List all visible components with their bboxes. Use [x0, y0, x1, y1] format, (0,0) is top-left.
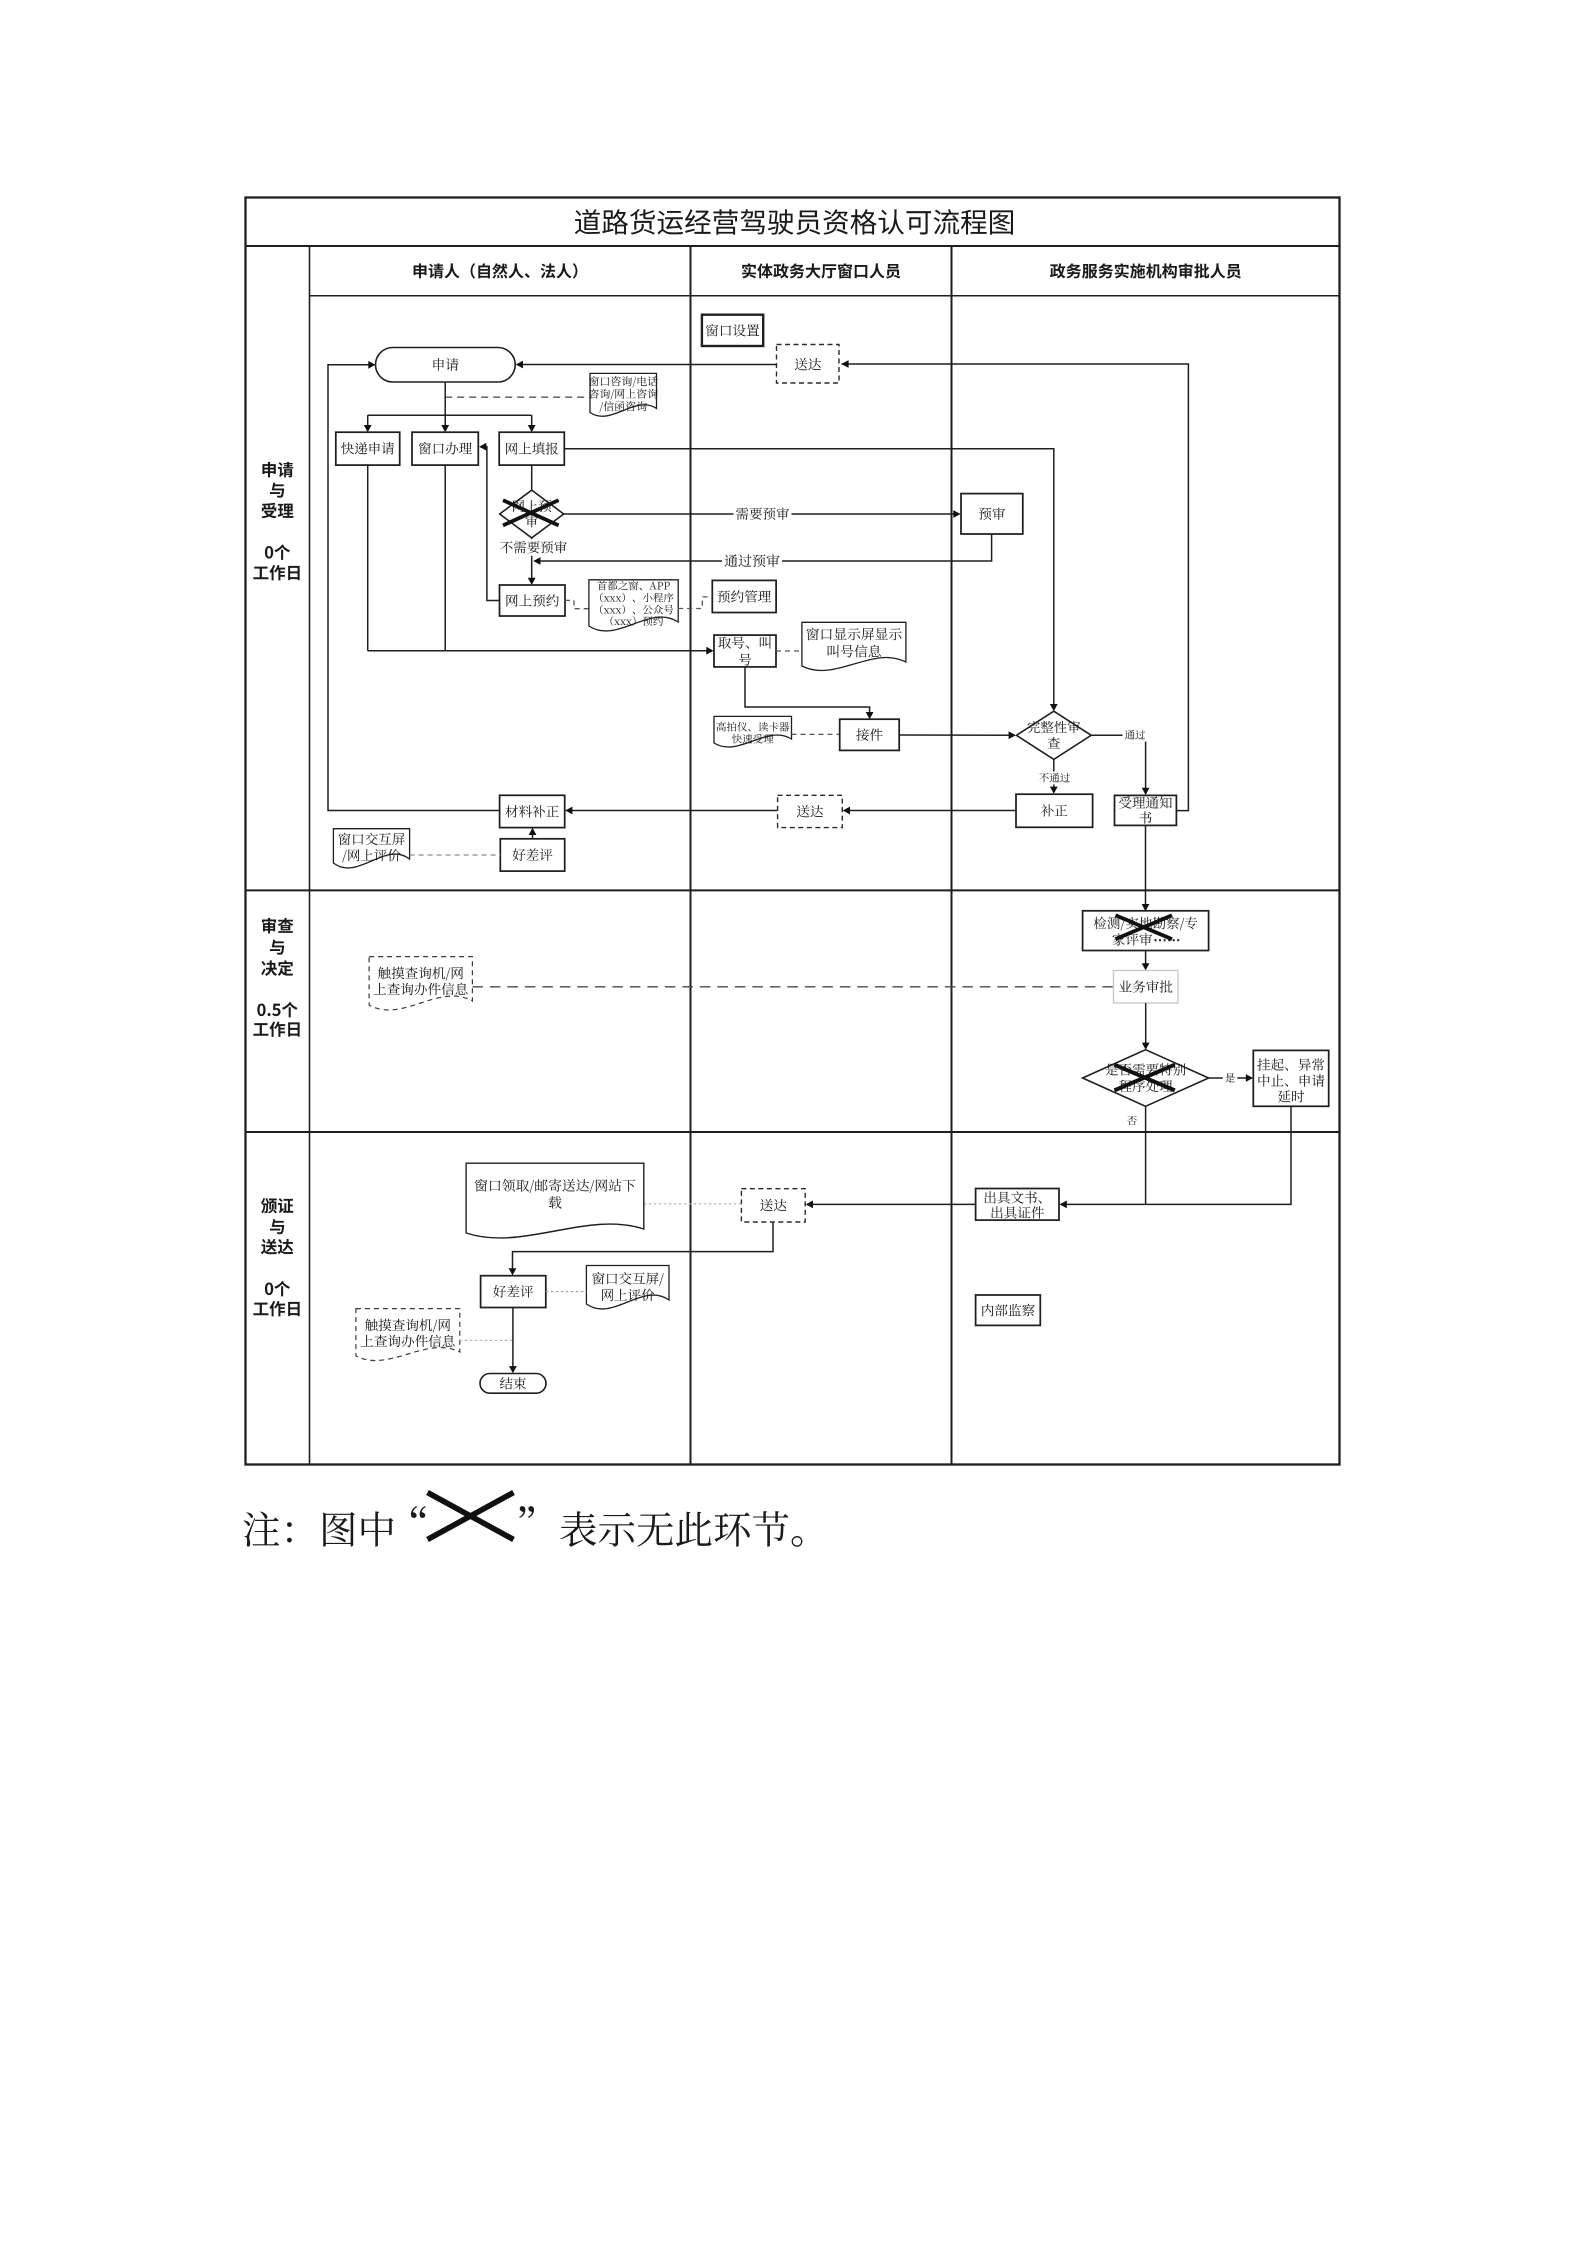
- column line: col2/col3: [951, 246, 953, 1465]
- terminator 申请: [376, 348, 516, 383]
- wire: 申请 branch to three channels: [444, 382, 446, 415]
- wire: 出具文书 to 送达(颁证): [807, 1203, 976, 1205]
- dashed wire: 预约 document to 预约管理: [678, 597, 710, 609]
- column header 实体政务大厅窗口人员: [742, 263, 900, 278]
- process 快递申请: [336, 432, 400, 465]
- cross-out X over 是否需要特别程序处理: [1114, 1065, 1174, 1091]
- wire: 完整性审查 通过 to 受理通知书: [1091, 735, 1145, 793]
- column header 申请人（自然人、法人）: [414, 263, 578, 278]
- process 好差评 (受理): [500, 839, 564, 871]
- dashed document 触摸查询机/网上查询办件信息 (颁证): [356, 1309, 460, 1361]
- title row bottom line: [246, 245, 1340, 247]
- dashed delivery 送达 (颁证): [741, 1189, 805, 1222]
- header row bottom line: [310, 295, 1340, 297]
- column line: col1/col2: [690, 246, 692, 1465]
- note X symbol: [428, 1493, 514, 1540]
- wire: 好差评 up to 材料补正: [532, 830, 534, 839]
- process 挂起、异常中止、申请延时: [1253, 1050, 1328, 1106]
- wire: 需要预审 to 预审: [564, 513, 960, 515]
- wire: 是 to 挂起box: [1209, 1077, 1252, 1079]
- wire: 业务审批 to 是否需要特别程序处理: [1145, 1003, 1147, 1048]
- document 窗口显示屏显示叫号信息: [802, 622, 906, 670]
- dotted wire: 好差评 to 交互屏 document: [546, 1291, 587, 1293]
- wire: 接件 to 完整性审查: [899, 734, 1015, 736]
- wire: 取号叫号 down right to 接件: [745, 667, 870, 717]
- wire: 材料补正 loop left and up to 申请: [328, 365, 500, 811]
- document 窗口领取/邮寄送达/网站下载: [466, 1163, 644, 1238]
- wire: 送达 to 材料补正: [566, 810, 778, 812]
- note close quote and 表示无此环节。: [519, 1506, 534, 1518]
- process 网上预约: [500, 585, 566, 616]
- process 窗口设置: [702, 315, 763, 346]
- dashed wire: 触摸查询机 to 业务审批: [472, 986, 1113, 988]
- process 取号、叫号: [714, 635, 776, 667]
- wire: 完整性审查 不通过 to 补正: [1053, 759, 1055, 792]
- dashed wire: 取号叫号 to 显示屏 document: [776, 650, 802, 652]
- label 通过: [1123, 729, 1148, 742]
- decision 完整性审查: [1016, 711, 1091, 759]
- process 窗口办理: [412, 432, 478, 465]
- wire: 网上填报 right to 完整性审查 diamond: [564, 449, 1054, 709]
- process 材料补正: [500, 795, 565, 827]
- process 好差评 (颁证): [481, 1276, 546, 1308]
- dashed wire: 高拍仪 document to 接件: [792, 733, 840, 735]
- cross-out X over 检测box: [1116, 915, 1173, 939]
- wire: 挂起 down join 出具文书 path: [1146, 1106, 1291, 1204]
- wire: 否 path down to 出具文书: [1061, 1107, 1146, 1205]
- dashed document 触摸查询机/网上查询办件信息 (审查): [369, 957, 472, 1010]
- wire: 网上预约 left up into 窗口办理: [480, 447, 500, 601]
- process 业务审批 (light border): [1114, 971, 1179, 1004]
- cross-out X over 网上预审: [503, 500, 559, 525]
- column header 政务服务实施机构审批人员: [1050, 263, 1241, 278]
- swimlane table outer border: [246, 198, 1340, 1465]
- wire: 补正 to 送达: [844, 810, 1017, 812]
- document 高拍仪、读卡器快速受理: [714, 716, 792, 747]
- dotted wire: 窗口领取 document to 送达: [644, 1203, 742, 1205]
- wire: 预审 back to apply path (通过预审): [535, 534, 992, 561]
- decision 网上预审 (crossed out): [500, 490, 564, 538]
- dashed delivery 送达 (受理): [777, 345, 840, 384]
- note open quote: [411, 1506, 426, 1518]
- label 否: [1127, 1116, 1137, 1125]
- wire: 送达 to 申请: [517, 364, 777, 366]
- column line: label col: [309, 246, 311, 1465]
- decision 是否需要特别程序处理 (crossed out): [1083, 1050, 1209, 1107]
- label 通过预审: [722, 552, 782, 569]
- process 网上填报: [499, 432, 564, 465]
- row label 颁证与送达 0个工作日: [261, 1198, 293, 1214]
- note text 注：图中: [244, 1511, 394, 1546]
- document 窗口交互屏/网上评价 (颁证): [586, 1266, 669, 1309]
- document 首都之窗、APP、小程序、公众号预约: [589, 580, 678, 631]
- process 补正: [1016, 794, 1093, 827]
- wire: 受理通知书 down to 检测: [1145, 825, 1147, 909]
- row divider: 审查/颁证: [246, 1131, 1340, 1133]
- wire: 网上预审 down to 网上预约 (不需要预审): [531, 538, 533, 583]
- table title 道路货运经营驾驶员资格认可流程图: [575, 209, 1013, 235]
- wire: 受理通知书 loop to 送达: [842, 364, 1189, 811]
- dotted wire: 触摸查询机 to 结束 path: [460, 1339, 513, 1341]
- process 内部监察: [976, 1295, 1041, 1325]
- label 需要预审: [734, 506, 792, 523]
- document 窗口交互屏/网上评价 (受理): [333, 829, 409, 868]
- label 不通过: [1037, 772, 1073, 785]
- dashed delivery 送达 (补正): [778, 795, 843, 827]
- row label 申请与受理 0个工作日: [262, 462, 293, 478]
- process 预约管理: [712, 580, 776, 612]
- wire: 网上填报 to 网上预审 diamond: [531, 465, 533, 490]
- document 窗口咨询/电话咨询/网上咨询/信函咨询: [590, 373, 657, 416]
- label 不需要预审: [498, 539, 570, 556]
- wire: 检测 to 业务审批: [1145, 951, 1147, 969]
- row divider: 受理/审查: [246, 889, 1340, 891]
- dashed wire: 交互屏 document to 好差评: [410, 854, 501, 856]
- process 出具文书、出具证件: [976, 1189, 1059, 1221]
- dashed wire: 网上预约 to 预约方式 document: [565, 600, 589, 608]
- process 接件: [840, 719, 900, 750]
- label 是: [1223, 1072, 1238, 1085]
- process 预审: [961, 494, 1023, 534]
- wire: 送达 down left to 好差评(颁证): [513, 1222, 774, 1273]
- terminator 结束: [480, 1374, 546, 1394]
- wire: 快递申请/窗口办理 down to 取号、叫号: [367, 464, 369, 650]
- process 受理通知书: [1115, 795, 1177, 825]
- row label 审查与决定 0.5个工作日: [262, 918, 293, 934]
- process 检测/实地勘察/专家评审 (crossed out): [1083, 911, 1209, 951]
- wire: 好差评 down to 结束: [512, 1308, 514, 1372]
- dashed wire: 申请 to 咨询 document: [445, 396, 590, 398]
